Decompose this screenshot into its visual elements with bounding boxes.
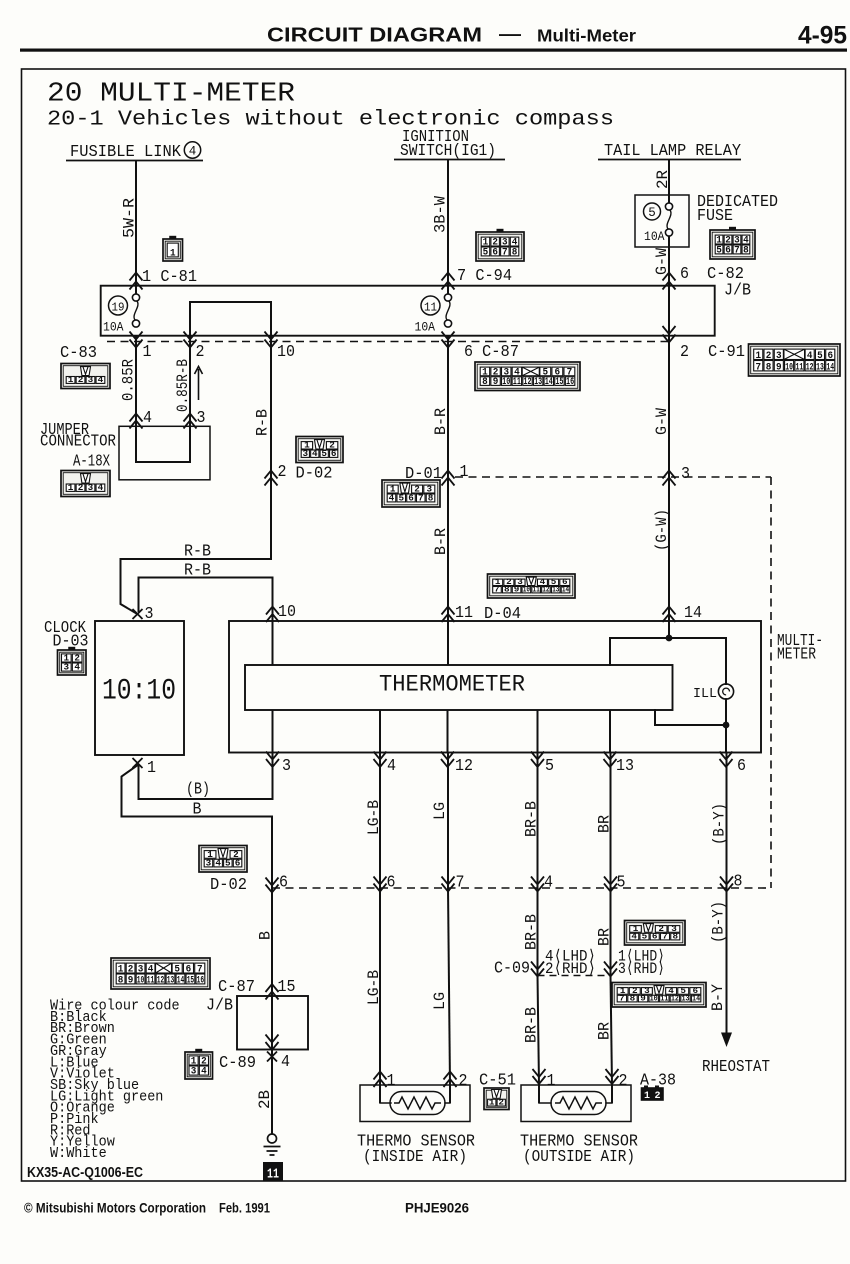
circled 5 dedicated fuse number: [644, 203, 661, 220]
svg-text:9: 9: [493, 377, 499, 388]
connector chevrons multimeter pin 4: [374, 752, 387, 768]
svg-text:3⟨RHD⟩: 3⟨RHD⟩: [618, 960, 665, 978]
svg-text:13: 13: [167, 974, 174, 986]
connector chevrons multimeter pin 14: [663, 607, 676, 623]
svg-text:C-51: C-51: [479, 1071, 516, 1090]
svg-text:3: 3: [64, 662, 70, 673]
svg-text:15: 15: [278, 977, 296, 996]
splice mark clock pin 1: [133, 758, 143, 768]
svg-text:11: 11: [533, 585, 540, 594]
svg-text:5: 5: [648, 206, 656, 220]
svg-text:3: 3: [206, 857, 212, 868]
wire bulb to multimeter pin 6: [725, 699, 727, 752]
connector chevrons multimeter pin 10: [266, 607, 279, 623]
svg-text:15: 15: [555, 377, 563, 388]
svg-text:4: 4: [631, 932, 637, 941]
connector chevrons boundary pin 6: [374, 877, 387, 892]
svg-text:5: 5: [617, 873, 626, 892]
header rule: [20, 49, 847, 52]
svg-text:14: 14: [684, 603, 702, 622]
svg-text:(G-W): (G-W): [653, 509, 671, 551]
clock component box: [95, 621, 184, 755]
svg-text:6: 6: [737, 756, 746, 775]
svg-text:C-91: C-91: [708, 342, 745, 361]
jumper connector A-18X box: [119, 426, 210, 480]
svg-text:4: 4: [215, 857, 221, 868]
svg-text:1: 1: [143, 342, 152, 361]
svg-text:THERMOMETER: THERMOMETER: [379, 672, 525, 699]
svg-text:8: 8: [766, 361, 772, 373]
svg-text:D-02: D-02: [210, 875, 247, 894]
connector icon C-51: [484, 1088, 509, 1110]
junction dot ILL branch bottom: [723, 722, 730, 729]
connector icon D-01: [382, 480, 440, 507]
wire (B) clock pin 1 to multimeter pin 3: [139, 753, 273, 800]
splice mark clock pin 3: [133, 609, 143, 619]
svg-text:14: 14: [177, 974, 184, 986]
wire thermometer to pin 3: [272, 710, 274, 753]
svg-text:16: 16: [197, 974, 204, 986]
svg-text:B-R: B-R: [432, 528, 450, 555]
junction block J/B box: [101, 286, 715, 336]
junction block box lower: [237, 996, 308, 1050]
svg-text:FUSE: FUSE: [697, 206, 733, 225]
flow direction arrow next to 0.85R-B: [195, 367, 203, 401]
svg-text:12: 12: [542, 585, 549, 594]
svg-text:BR-B: BR-B: [523, 914, 541, 950]
wire multimeter pin 14 internal: [668, 621, 670, 638]
svg-text:4: 4: [143, 408, 152, 427]
svg-text:16: 16: [566, 377, 574, 388]
svg-text:10: 10: [785, 361, 793, 373]
svg-text:11: 11: [424, 301, 437, 315]
svg-text:7: 7: [418, 492, 424, 503]
svg-text:METER: METER: [777, 645, 816, 664]
svg-text:4: 4: [389, 492, 395, 503]
connector icon D-02: [296, 437, 343, 463]
svg-text:14: 14: [692, 994, 700, 1003]
svg-text:12: 12: [671, 994, 679, 1003]
svg-text:4: 4: [544, 873, 553, 892]
svg-text:4: 4: [281, 1052, 290, 1071]
svg-text:13: 13: [681, 994, 689, 1003]
connector icon C-89: [185, 1049, 213, 1079]
svg-text:2: 2: [196, 342, 205, 361]
wire 0.85R-B to jumper connector: [189, 336, 191, 426]
wire 2B to ground: [271, 1050, 273, 1135]
svg-text:C-89: C-89: [219, 1053, 256, 1072]
svg-text:13: 13: [552, 585, 559, 594]
connector chevrons D-01 pin 1: [442, 471, 455, 486]
svg-text:14: 14: [826, 361, 834, 373]
connector chevrons D-02 pin 2: [265, 471, 278, 486]
svg-text:4: 4: [387, 756, 396, 775]
connector chevrons C-81 pin 1: [130, 273, 143, 290]
svg-text:5: 5: [642, 932, 648, 941]
wire B clock pin 1 to ground branch: [122, 766, 273, 889]
connector chevrons boundary pin 5: [604, 877, 617, 892]
svg-text:2: 2: [78, 483, 84, 493]
svg-text:C-87: C-87: [218, 977, 255, 996]
svg-text:10: 10: [137, 974, 144, 986]
svg-text:19: 19: [112, 301, 125, 315]
svg-text:FUSIBLE LINK: FUSIBLE LINK: [70, 142, 181, 161]
svg-text:1: 1: [68, 483, 74, 493]
wire 5W-R from fusible link: [135, 161, 137, 294]
connector chevrons multimeter pin 3: [266, 752, 279, 768]
svg-text:B: B: [193, 800, 202, 819]
wire 0.85R to jumper connector: [135, 336, 137, 426]
svg-text:KX35-AC-Q1006-EC: KX35-AC-Q1006-EC: [27, 1165, 143, 1181]
svg-text:5: 5: [225, 857, 231, 868]
connector icon 14-pin near C-09: [612, 983, 706, 1008]
svg-text:8: 8: [672, 932, 678, 941]
svg-text:C-87: C-87: [482, 342, 519, 361]
junction dot ILL branch top: [666, 635, 673, 642]
connector chevrons J/B pin 2: [184, 332, 197, 348]
svg-text:10A: 10A: [103, 320, 124, 335]
svg-text:1: 1: [644, 1091, 650, 1102]
svg-text:10: 10: [277, 342, 295, 361]
svg-text:12: 12: [806, 361, 814, 373]
svg-text:B-Y: B-Y: [709, 984, 727, 1011]
svg-text:R-B: R-B: [184, 542, 211, 561]
svg-text:13: 13: [534, 377, 542, 388]
svg-text:3: 3: [282, 756, 291, 775]
svg-text:1: 1: [68, 375, 74, 385]
connector icon A-38: [642, 1086, 664, 1103]
connector chevrons C-87 pin 15: [266, 984, 279, 1000]
svg-text:3: 3: [191, 1066, 197, 1078]
svg-text:15: 15: [187, 974, 194, 986]
svg-text:3B-W: 3B-W: [432, 196, 450, 233]
connector icon D-02 lower: [199, 846, 247, 873]
dashed connector line C-09: [538, 975, 611, 977]
wire G-W inside J/B: [668, 286, 670, 336]
svg-text:7 C-94: 7 C-94: [457, 266, 512, 285]
fuse 19 element: [132, 294, 139, 327]
svg-text:11: 11: [147, 974, 154, 986]
svg-text:C-09: C-09: [494, 959, 530, 978]
svg-text:D-02: D-02: [296, 464, 333, 483]
svg-text:20-1 Vehicles without electron: 20-1 Vehicles without electronic compass: [47, 108, 614, 132]
svg-text:6: 6: [464, 342, 473, 361]
wire BR lower to outside sensor pin 2: [611, 976, 613, 1086]
svg-text:7: 7: [502, 246, 508, 258]
dedicated fuse element: [665, 203, 672, 236]
connector chevrons A-18X pin 3: [184, 414, 197, 429]
wire B to C-87 pin 15: [271, 888, 273, 996]
svg-text:G-W: G-W: [653, 248, 671, 275]
wire multimeter pin 10 to thermometer: [272, 621, 274, 665]
svg-text:9: 9: [514, 585, 520, 594]
svg-text:14: 14: [562, 585, 569, 594]
connector icon C-91 14-pin: [749, 344, 841, 376]
connector chevrons dashed boundary pin 3: [663, 471, 676, 486]
svg-text:3: 3: [88, 483, 94, 493]
wire B inside lower J/B: [271, 996, 273, 1050]
underline TAIL LAMP RELAY: [598, 159, 741, 161]
svg-text:TAIL LAMP RELAY: TAIL LAMP RELAY: [604, 141, 741, 160]
svg-text:1: 1: [460, 462, 469, 481]
dedicated fuse box: [635, 195, 689, 247]
connector chevrons sensor pin 1: [374, 1072, 387, 1088]
thermistor oval outside air: [551, 1092, 606, 1115]
wire thermometer to pin 12: [447, 710, 449, 753]
fuse 11 element: [444, 294, 451, 327]
svg-text:R-B: R-B: [254, 409, 272, 436]
svg-text:3: 3: [197, 408, 206, 427]
wire 3B-W from ignition switch: [447, 160, 449, 294]
svg-text:B: B: [257, 931, 275, 940]
svg-text:Feb. 1991: Feb. 1991: [219, 1201, 270, 1216]
svg-text:6: 6: [387, 873, 396, 892]
svg-text:6: 6: [331, 449, 337, 459]
wire R-B clock pin 3 to multimeter pin 10: [139, 578, 273, 622]
wire B-Y multimeter pin 6 to rheostat: [726, 753, 728, 1034]
svg-text:12: 12: [157, 974, 164, 986]
svg-text:4: 4: [201, 1066, 207, 1078]
wire ILL branch to bulb: [610, 638, 726, 684]
svg-text:3: 3: [681, 464, 690, 483]
connector chevrons multimeter pin 12: [441, 752, 454, 768]
multi-meter component box: [229, 621, 761, 753]
svg-text:1: 1: [387, 1071, 396, 1090]
connector chevrons outside sensor pin 1: [533, 1069, 546, 1084]
svg-text:(OUTSIDE AIR): (OUTSIDE AIR): [523, 1147, 635, 1166]
sensor 2 internal leads: [539, 1102, 612, 1104]
svg-text:W:White: W:White: [50, 1144, 107, 1162]
svg-text:2: 2: [278, 462, 287, 481]
svg-text:6: 6: [235, 857, 241, 868]
svg-text:BR-B: BR-B: [523, 1007, 541, 1043]
svg-text:11: 11: [455, 603, 473, 622]
svg-text:B-R: B-R: [432, 408, 450, 435]
jumper wire loop inside A-18X: [136, 426, 190, 462]
svg-text:CONNECTOR: CONNECTOR: [40, 432, 116, 451]
svg-text:8: 8: [482, 377, 488, 388]
svg-text:10: 10: [650, 994, 658, 1003]
svg-text:BR: BR: [596, 1022, 614, 1040]
wire thermometer to ILL return: [655, 710, 726, 725]
svg-text:CIRCUIT DIAGRAM: CIRCUIT DIAGRAM: [267, 24, 482, 47]
wire G-W below dedicated fuse: [668, 237, 670, 294]
svg-text:10A: 10A: [644, 229, 665, 244]
connector chevrons C-82 pin 6: [663, 273, 676, 290]
thermo sensor inside air box: [360, 1085, 470, 1122]
svg-text:7: 7: [494, 585, 500, 594]
svg-text:12: 12: [523, 377, 531, 388]
connector icon C-94: [476, 229, 524, 261]
wire R-B from J/B pin 10: [270, 336, 272, 559]
svg-text:6: 6: [725, 244, 731, 256]
svg-text:2: 2: [78, 375, 84, 385]
svg-text:A-18X: A-18X: [73, 452, 110, 471]
thermometer box: [245, 665, 673, 710]
svg-text:14: 14: [545, 377, 553, 388]
svg-text:LG-B: LG-B: [365, 800, 383, 835]
wire LG-B multimeter pin 4 to inside air sensor: [379, 753, 381, 1086]
svg-text:4: 4: [98, 483, 104, 493]
svg-text:6: 6: [680, 264, 689, 283]
connector chevrons boundary pin 8: [720, 877, 733, 892]
svg-text:BR-B: BR-B: [523, 801, 541, 837]
svg-text:0.85R: 0.85R: [120, 359, 138, 401]
connector chevrons C-87 pin 6: [442, 332, 455, 348]
svg-text:9: 9: [128, 974, 134, 986]
svg-text:(B): (B): [186, 780, 210, 799]
svg-text:BR: BR: [596, 815, 614, 833]
svg-text:—: —: [499, 24, 521, 44]
svg-text:2: 2: [498, 1099, 504, 1108]
connector icon C-87 lower: [111, 958, 210, 989]
connector chevrons multimeter pin 13: [604, 752, 617, 768]
thermo sensor outside air box: [521, 1085, 631, 1122]
wire B-R from C-87 pin 6 to multimeter pin 11: [447, 336, 449, 621]
wire multimeter pin 11 to thermometer: [447, 621, 449, 665]
connector icon C-82: [710, 227, 755, 259]
svg-text:0.85R-B: 0.85R-B: [174, 359, 192, 412]
dashed boundary right side: [770, 477, 772, 888]
underline IGNITION SWITCH: [394, 159, 505, 161]
svg-text:1: 1: [547, 1071, 556, 1090]
svg-text:2: 2: [654, 1091, 660, 1102]
svg-text:7: 7: [755, 361, 761, 373]
connector chevrons multimeter pin 11: [442, 607, 455, 623]
svg-text:9: 9: [640, 994, 646, 1003]
svg-text:8: 8: [428, 492, 434, 503]
svg-text:6: 6: [408, 492, 414, 503]
svg-text:4: 4: [312, 449, 318, 459]
svg-text:2: 2: [619, 1071, 628, 1090]
underline FUSIBLE LINK: [66, 160, 203, 162]
svg-text:4: 4: [74, 662, 80, 673]
svg-text:2: 2: [680, 342, 689, 361]
wire inside sensor 1 pin 2: [449, 1085, 451, 1103]
svg-text:7: 7: [662, 932, 668, 941]
svg-text:ILL: ILL: [693, 687, 717, 702]
svg-text:2: 2: [459, 1071, 468, 1090]
svg-text:6: 6: [652, 932, 658, 941]
connector icon D-04: [488, 574, 576, 598]
svg-text:C-83: C-83: [60, 343, 97, 362]
wire thermometer to pin 13: [609, 710, 611, 753]
svg-text:5: 5: [398, 492, 404, 503]
svg-text:9: 9: [776, 361, 782, 373]
svg-text:11: 11: [267, 1167, 279, 1183]
connector chevrons multimeter pin 6: [720, 752, 733, 768]
svg-text:2B: 2B: [256, 1090, 274, 1109]
connector icon C-81: [163, 236, 183, 261]
wire outside sensor pin 2: [611, 1085, 613, 1103]
svg-text:R-B: R-B: [184, 561, 211, 580]
connector chevrons C-91 pin 2: [663, 326, 676, 343]
illumination bulb symbol: [718, 684, 733, 699]
wire thermometer to pin 5: [537, 710, 539, 753]
circled 4 fusible link number: [184, 142, 200, 158]
svg-text:SWITCH(IG1): SWITCH(IG1): [400, 141, 496, 160]
svg-text:6: 6: [492, 246, 498, 258]
wire thermometer to pin 4: [379, 710, 381, 753]
svg-text:2R: 2R: [654, 170, 672, 189]
svg-text:10: 10: [502, 377, 510, 388]
connector icon C-87 16-pin: [475, 362, 580, 391]
svg-text:7: 7: [619, 994, 625, 1003]
connector chevrons D-02 pin 6: [266, 878, 279, 893]
thermistor oval inside air: [390, 1092, 445, 1115]
svg-text:5: 5: [545, 756, 554, 775]
svg-text:8: 8: [118, 974, 124, 986]
svg-text:PHJE9026: PHJE9026: [405, 1201, 469, 1216]
svg-text:11: 11: [796, 361, 804, 373]
wire G-W from C-91 pin 2 to multimeter pin 14: [668, 336, 670, 621]
wire outside sensor pin 1: [538, 1085, 540, 1103]
svg-text:LG: LG: [431, 802, 449, 820]
svg-text:(B-Y): (B-Y): [710, 901, 728, 943]
fuse 11 circled number: [421, 296, 440, 315]
svg-text:4-95: 4-95: [798, 22, 847, 50]
dashed harness boundary bottom: [272, 887, 771, 889]
connector icon C-83: [61, 364, 110, 389]
svg-text:5: 5: [321, 449, 327, 459]
connector icon A-18X: [61, 471, 110, 497]
svg-text:8: 8: [630, 994, 636, 1003]
svg-text:5: 5: [716, 244, 722, 256]
svg-text:10: 10: [278, 602, 296, 621]
wire inside sensor 1 pin 1: [379, 1085, 381, 1103]
svg-text:BR: BR: [596, 928, 614, 946]
fuse 19 circled number: [109, 296, 128, 315]
wire BR multimeter pin 13 upper: [610, 753, 612, 976]
svg-text:4: 4: [189, 145, 197, 159]
connector chevrons boundary pin 4: [531, 877, 544, 892]
connector chevrons C-09 right: [604, 962, 617, 977]
svg-text:8: 8: [512, 246, 518, 258]
svg-text:8: 8: [734, 872, 743, 891]
svg-text:3: 3: [303, 449, 309, 459]
connector chevrons A-18X pin 4: [130, 414, 143, 429]
svg-text:J/B: J/B: [206, 996, 233, 1015]
connector icon 8-pin near C-09: [625, 921, 686, 946]
svg-text:11: 11: [660, 994, 668, 1003]
connector chevrons boundary pin 7: [442, 877, 455, 892]
J/B bottom dashed connector line: [107, 341, 669, 343]
svg-text:3: 3: [88, 375, 94, 385]
svg-text:12: 12: [455, 756, 473, 775]
svg-text:G-W: G-W: [653, 408, 671, 435]
svg-text:1: 1: [147, 758, 156, 777]
svg-text:Multi-Meter: Multi-Meter: [537, 26, 636, 46]
svg-text:(B-Y): (B-Y): [711, 803, 729, 845]
svg-text:5W-R: 5W-R: [121, 198, 139, 238]
wire LG lower to sensor pin 2: [448, 888, 450, 1085]
svg-text:13: 13: [616, 756, 634, 775]
wire 2R from tail lamp relay: [668, 160, 670, 204]
svg-text:RHEOSTAT: RHEOSTAT: [702, 1057, 770, 1076]
svg-text:8: 8: [504, 585, 510, 594]
J/B internal jumper wire pin2 to pin10: [190, 302, 271, 336]
svg-text:1 C-81: 1 C-81: [142, 267, 197, 286]
arrowhead to rheostat: [721, 1033, 732, 1048]
svg-text:4: 4: [98, 375, 104, 385]
wire R-B bend into clock pin 3: [121, 559, 272, 614]
svg-text:10: 10: [523, 585, 530, 594]
svg-text:7: 7: [456, 873, 465, 892]
ground point number 11: [263, 1162, 283, 1181]
wire BR-B multimeter pin 5 upper: [537, 753, 539, 976]
connector icon D-03: [58, 647, 87, 675]
svg-text:(INSIDE AIR): (INSIDE AIR): [363, 1147, 467, 1166]
